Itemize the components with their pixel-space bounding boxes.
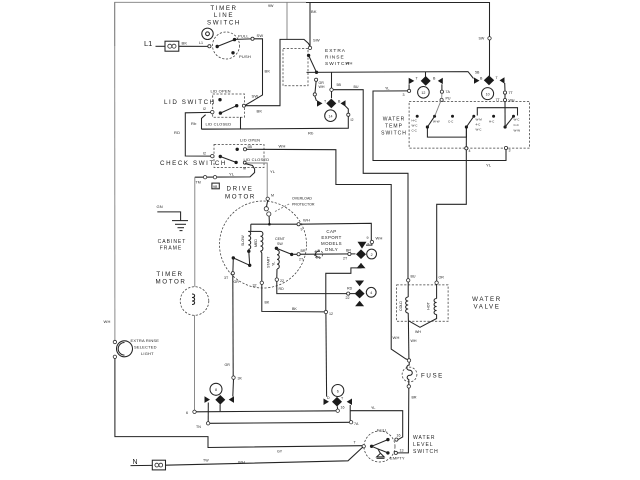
svg-text:YL: YL (272, 262, 276, 266)
wire WH neutral to water level switch (166, 447, 364, 465)
timer cam symbol (202, 28, 213, 39)
svg-text:RINSE: RINSE (325, 55, 345, 61)
svg-text:6: 6 (186, 411, 188, 415)
svg-text:12: 12 (421, 91, 425, 95)
terminal 6 timer motor bottom (186, 410, 196, 415)
svg-text:22: 22 (346, 296, 350, 300)
svg-text:PULL: PULL (238, 34, 249, 39)
wire OR WTS 4 to valve hot (437, 150, 467, 281)
svg-text:4-C: 4-C (476, 123, 482, 127)
svg-text:GR: GR (234, 280, 240, 284)
svg-text:CAP: CAP (326, 229, 336, 234)
svg-text:W-C: W-C (412, 124, 419, 128)
terminal WH 9 drive motor (297, 218, 310, 232)
svg-text:RD: RD (279, 287, 285, 291)
svg-text:SLOW: SLOW (241, 235, 245, 246)
terminal M drive motor (266, 194, 274, 201)
svg-text:C-C: C-C (412, 129, 418, 133)
svg-text:13: 13 (400, 449, 404, 453)
svg-text:TIMER: TIMER (156, 271, 183, 278)
svg-text:WH: WH (393, 335, 400, 340)
svg-text:TN: TN (196, 425, 201, 429)
svg-text:BR: BR (346, 249, 351, 253)
svg-text:BK: BK (292, 307, 297, 311)
svg-text:YL: YL (486, 163, 492, 168)
wire SW vertical to diamond 10 (475, 37, 491, 77)
svg-text:22: 22 (280, 279, 284, 283)
svg-text:VALVE: VALVE (473, 304, 500, 311)
connector N plug (152, 460, 165, 470)
wire RD lid switch I2 down to check switch (174, 112, 211, 156)
svg-text:MED: MED (254, 239, 258, 247)
svg-text:I2: I2 (203, 152, 206, 156)
connector L1 plug (165, 41, 208, 52)
svg-text:BU: BU (354, 85, 359, 89)
water temp switch label (381, 117, 407, 137)
connector 5 inline (314, 250, 322, 258)
N terminal (131, 459, 153, 466)
svg-text:LINE: LINE (214, 12, 234, 19)
svg-text:CENT: CENT (275, 237, 286, 241)
svg-text:TM: TM (196, 181, 201, 185)
svg-text:16: 16 (341, 406, 345, 410)
WTS section 2 (448, 115, 482, 132)
switch S1 timer line switch (199, 32, 263, 59)
svg-text:PROTECTOR: PROTECTOR (292, 203, 315, 207)
terminal 5B extra rinse (330, 72, 342, 98)
svg-text:H-C: H-C (489, 120, 495, 124)
svg-text:Rb: Rb (308, 131, 314, 136)
svg-text:EXTRA RINSE: EXTRA RINSE (131, 338, 160, 343)
svg-text:SW: SW (252, 94, 259, 99)
wire YL WTS 3 loop (373, 87, 506, 168)
wire YL to water level switch full (350, 406, 403, 440)
svg-text:7A: 7A (446, 90, 451, 94)
svg-text:LID SWITCH: LID SWITCH (164, 99, 216, 106)
wire BK from timer switch down to lid switch (245, 39, 271, 106)
svg-text:TW: TW (203, 459, 209, 463)
svg-text:I2: I2 (203, 107, 206, 111)
svg-text:BK: BK (257, 109, 263, 114)
svg-text:W-C: W-C (514, 118, 521, 122)
svg-text:START: START (267, 256, 271, 268)
svg-text:BU: BU (411, 275, 416, 279)
winding MED (254, 231, 263, 281)
svg-text:WH: WH (319, 85, 325, 89)
svg-text:2: 2 (371, 253, 373, 257)
svg-text:LID CLOSED: LID CLOSED (206, 122, 232, 127)
svg-text:OR: OR (439, 276, 445, 280)
wire WH check switch to valve spine (246, 144, 409, 361)
switch S3 check switch box (203, 145, 269, 171)
svg-text:LIGHT: LIGHT (141, 351, 154, 356)
solenoid hot (408, 281, 438, 334)
svg-text:BK: BK (182, 41, 188, 46)
svg-text:DRIVE: DRIVE (227, 186, 254, 193)
svg-text:WH: WH (346, 61, 353, 66)
wire GR down to connector 8 (225, 275, 243, 397)
connector TM plug circles (196, 176, 217, 185)
terminal 32 motor (253, 281, 264, 287)
svg-text:5B: 5B (248, 145, 253, 149)
svg-text:12: 12 (329, 312, 333, 316)
svg-text:L1: L1 (144, 39, 152, 48)
svg-text:WH: WH (104, 319, 111, 324)
WTS section 1 (412, 101, 442, 133)
svg-text:BK: BK (265, 69, 271, 74)
connector 2 group (356, 242, 377, 268)
connector 10 group (474, 75, 515, 102)
terminal 3T GR (224, 258, 239, 284)
wire BU extra rinse 5B to valve (333, 85, 416, 279)
wire valve common to fuse (408, 321, 416, 359)
svg-text:EXTRA: EXTRA (325, 48, 346, 54)
water valve label (472, 296, 502, 311)
svg-text:3: 3 (509, 149, 511, 153)
svg-text:WH: WH (411, 339, 417, 343)
svg-text:FULL: FULL (377, 428, 388, 433)
wire bus 2 TN to 7A (210, 422, 349, 423)
svg-text:Rb: Rb (191, 121, 197, 126)
terminal 16 (336, 406, 345, 413)
svg-text:W-C: W-C (476, 128, 483, 132)
wire RD lid closed to connector 14 (202, 117, 348, 136)
connector 4 group (346, 281, 377, 307)
timer motor TM (180, 177, 209, 410)
winding SLOW (241, 224, 261, 253)
svg-text:SW: SW (479, 37, 485, 41)
svg-text:3K: 3K (238, 377, 243, 381)
svg-text:M: M (243, 167, 246, 171)
cabinet frame label (158, 239, 187, 252)
svg-text:RD: RD (174, 130, 180, 135)
drive motor dashed circle (220, 201, 307, 288)
wire YL check switch to timer motor (195, 164, 255, 178)
svg-text:H-C: H-C (412, 119, 418, 123)
WTS link U (427, 129, 466, 138)
svg-text:W-W: W-W (433, 120, 440, 124)
svg-text:WH: WH (415, 330, 421, 334)
wire BK lid switch to extra rinse riser (245, 38, 319, 114)
solenoid cold (399, 279, 410, 321)
winding START (267, 250, 280, 278)
svg-text:W-M: W-M (476, 118, 483, 122)
svg-text:ONLY: ONLY (325, 247, 338, 252)
svg-text:D: D (327, 396, 330, 400)
svg-text:GR: GR (225, 363, 231, 367)
wire BR cent sw to connector 2 (293, 249, 355, 262)
switch extra rinse (283, 3, 325, 102)
svg-text:MODELS: MODELS (321, 241, 342, 246)
svg-text:WH: WH (509, 99, 515, 103)
WTS section 3 (489, 102, 520, 133)
svg-text:M: M (271, 194, 274, 198)
switch S2 lid switch box (203, 94, 245, 117)
svg-text:14: 14 (329, 115, 333, 119)
ground GN cabinet (157, 204, 189, 231)
svg-text:OVERLOAD: OVERLOAD (292, 197, 312, 201)
valve box (397, 285, 449, 321)
svg-text:MOTOR: MOTOR (225, 194, 256, 201)
svg-text:SW: SW (313, 38, 320, 43)
wire BK motor 32 to connector 12 (262, 285, 325, 312)
svg-text:GN: GN (157, 204, 163, 209)
connector 14 group (317, 99, 354, 122)
connector 12 group (403, 72, 451, 102)
svg-text:MOTOR: MOTOR (156, 279, 187, 286)
wire top WH line (115, 2, 490, 46)
svg-text:4: 4 (370, 291, 372, 295)
terminal 22 RD motor (275, 278, 284, 291)
svg-text:7A: 7A (354, 422, 359, 426)
timer motor label (156, 271, 187, 286)
svg-text:WATER: WATER (413, 435, 436, 441)
svg-text:9W: 9W (268, 4, 274, 8)
wire connector 2 to 12 bracket (326, 263, 361, 310)
svg-text:BR: BR (301, 249, 306, 253)
svg-text:SWITCH: SWITCH (413, 449, 439, 455)
wire motor internal bus (251, 223, 297, 226)
svg-text:FUSE: FUSE (421, 373, 444, 380)
svg-text:LEVEL: LEVEL (413, 442, 434, 448)
wire bus 1 (196, 411, 336, 412)
svg-text:WH: WH (279, 144, 286, 149)
svg-text:EMPTY: EMPTY (390, 456, 405, 461)
svg-text:PU: PU (446, 97, 451, 101)
svg-text:5B: 5B (337, 83, 342, 87)
svg-text:HOT: HOT (427, 301, 431, 309)
svg-text:LID OPEN: LID OPEN (240, 138, 260, 143)
svg-text:SW: SW (277, 242, 283, 246)
WTS top link (477, 108, 517, 116)
terminal 12 (324, 310, 333, 396)
svg-text:3: 3 (403, 93, 405, 97)
svg-text:8: 8 (215, 388, 217, 392)
svg-text:RD: RD (347, 287, 353, 291)
drive motor label (225, 186, 256, 201)
svg-text:SWITCH: SWITCH (207, 20, 241, 27)
connector 9B box (212, 183, 219, 189)
svg-text:LID CLOSED: LID CLOSED (244, 157, 270, 162)
timer line switch label (207, 5, 241, 27)
svg-text:CABINET: CABINET (158, 239, 187, 245)
extra rinse switch label (325, 48, 350, 67)
switch centrifugal CENT SW (275, 237, 294, 256)
svg-text:9: 9 (301, 228, 303, 232)
svg-text:WATER: WATER (472, 296, 502, 303)
svg-text:CHECK SWITCH: CHECK SWITCH (160, 160, 227, 167)
svg-text:YL: YL (371, 406, 375, 410)
svg-text:FRAME: FRAME (160, 246, 183, 252)
overload protector (264, 197, 315, 224)
wire RD to connector 4 (277, 281, 348, 293)
svg-text:BK: BK (265, 301, 270, 305)
svg-text:GY: GY (277, 450, 283, 454)
svg-text:WATER: WATER (383, 117, 406, 123)
svg-text:SWITCH: SWITCH (381, 131, 407, 137)
lid closed callout box (202, 115, 241, 129)
water level switch (354, 428, 405, 463)
switch start internal (232, 251, 252, 267)
fuse F1 (402, 359, 444, 388)
svg-text:LID OPEN: LID OPEN (211, 89, 231, 94)
node SW junction at extra rinse (286, 3, 288, 40)
terminal 4 WTS (465, 129, 471, 154)
svg-text:L1: L1 (199, 41, 203, 45)
svg-text:BR: BR (412, 396, 417, 400)
svg-text:5B: 5B (475, 71, 480, 75)
svg-text:YL: YL (229, 172, 235, 177)
svg-text:WH: WH (238, 460, 245, 465)
wire BR fuse to water level switch (398, 388, 417, 453)
L1 terminal (144, 39, 165, 48)
svg-text:EXPORT: EXPORT (321, 235, 341, 240)
connector 6 group (324, 385, 353, 421)
svg-text:4: 4 (469, 149, 471, 153)
wire WH motor to connector 2 (300, 223, 382, 245)
wire YL check switch to drive motor M (246, 163, 276, 197)
svg-text:TEMP: TEMP (385, 124, 403, 130)
svg-text:C-C: C-C (514, 123, 520, 127)
svg-text:6: 6 (337, 389, 339, 393)
svg-text:N: N (133, 459, 138, 466)
svg-text:PUSH: PUSH (239, 54, 251, 59)
svg-text:9B: 9B (213, 185, 218, 189)
cap export label (321, 229, 342, 252)
svg-text:SELECTED: SELECTED (134, 345, 157, 350)
svg-text:COLD: COLD (399, 301, 403, 311)
svg-text:SW: SW (257, 33, 264, 38)
svg-text:32: 32 (253, 284, 257, 288)
lid switch label (164, 89, 231, 107)
wire WH light to water level switch (115, 359, 362, 454)
svg-text:WH: WH (303, 218, 310, 223)
svg-text:TIMER: TIMER (210, 5, 237, 12)
svg-text:C-C: C-C (448, 120, 454, 124)
switch water temp box (409, 102, 529, 149)
wire 5B extra rinse to connector 10 (307, 61, 474, 79)
svg-text:BK: BK (311, 9, 317, 14)
water level switch label (413, 435, 439, 455)
terminal TN (196, 422, 210, 429)
terminal BR 2T right (343, 249, 351, 261)
svg-text:16: 16 (397, 434, 401, 438)
ground water level switch (377, 449, 385, 459)
terminal 3 WTS bottom (504, 146, 510, 152)
terminal 7A bottom (349, 421, 359, 427)
check switch label (160, 138, 260, 168)
svg-text:I2: I2 (351, 118, 354, 122)
svg-text:W-W: W-W (514, 129, 521, 133)
light extra rinse selected (104, 2, 160, 358)
svg-text:9: 9 (367, 236, 369, 240)
svg-text:WH: WH (376, 236, 383, 241)
svg-text:YL: YL (270, 169, 276, 174)
connector 8 group (205, 383, 235, 421)
svg-text:YL: YL (385, 87, 389, 91)
svg-text:10: 10 (486, 93, 490, 97)
